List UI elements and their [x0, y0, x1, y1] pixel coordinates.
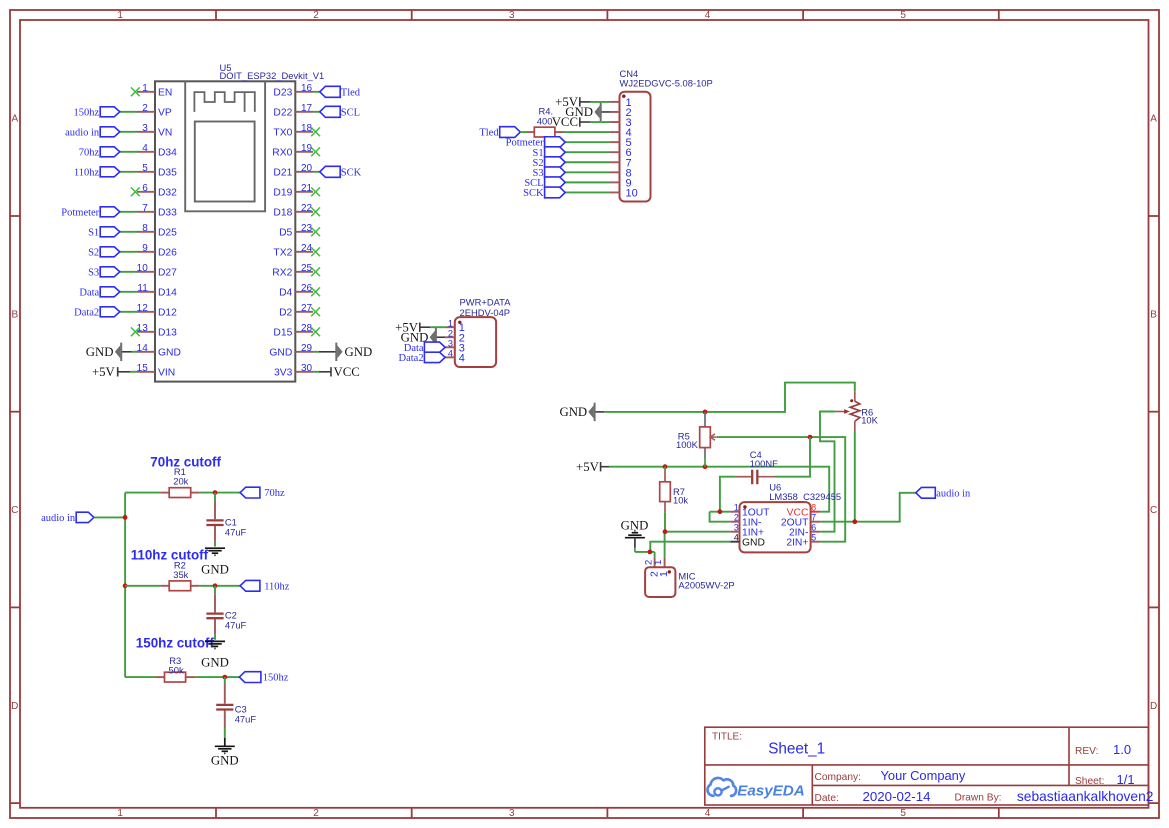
- wire: [565, 171, 610, 173]
- svg-text:1/1: 1/1: [1117, 772, 1135, 787]
- svg-text:D4: D4: [279, 288, 292, 299]
- svg-text:27: 27: [301, 303, 313, 314]
- power flag +5V (PWR+DATA pin 1): [395, 320, 430, 334]
- svg-text:B: B: [11, 309, 18, 320]
- net flag 110hz: [240, 580, 290, 592]
- svg-text:SCK: SCK: [523, 188, 544, 199]
- U5 pin 30 (3V3): [274, 363, 313, 379]
- U5 pin 8 (D25): [137, 223, 177, 239]
- svg-text:Your Company: Your Company: [881, 768, 966, 783]
- resistor R1 20k: [169, 466, 191, 497]
- svg-text:VP: VP: [158, 108, 172, 119]
- power flag VCC (U5 pin 30): [319, 365, 360, 379]
- svg-text:110hz: 110hz: [74, 167, 100, 178]
- U5 pin 11 (D14): [137, 283, 177, 299]
- PWR+DATA pin 4: [445, 348, 465, 364]
- svg-text:1: 1: [658, 571, 670, 577]
- resistor R1 leads: [160, 492, 169, 494]
- svg-text:Tled: Tled: [341, 87, 361, 98]
- svg-text:D19: D19: [273, 188, 292, 199]
- svg-text:+5V: +5V: [576, 460, 600, 474]
- svg-text:2EHDV-04P: 2EHDV-04P: [460, 307, 511, 318]
- svg-text:GND: GND: [86, 345, 114, 359]
- svg-text:D23: D23: [273, 88, 292, 99]
- capacitor C3 leads: [224, 677, 226, 683]
- wire: [125, 492, 160, 494]
- svg-text:150hz cutoff: 150hz cutoff: [136, 635, 215, 650]
- net flag audio in (output): [916, 487, 971, 499]
- U6 pin 6 (2IN-): [789, 523, 820, 539]
- op-amp U6 LM358_C329455 body: [740, 502, 811, 552]
- wire audio-in rail: [94, 516, 125, 518]
- ground flag GND (PWR+DATA pin 2): [401, 328, 445, 346]
- svg-text:TX0: TX0: [273, 128, 292, 139]
- U6 pin 7 (2OUT): [781, 513, 820, 529]
- net flag S1: [533, 147, 566, 159]
- net flag Data2: [74, 307, 120, 319]
- svg-text:sebastiaankalkhoven2: sebastiaankalkhoven2: [1017, 789, 1154, 804]
- capacitor C2 47uF: [206, 610, 246, 631]
- net flag 70hz: [79, 147, 120, 159]
- wire: [120, 111, 137, 113]
- wire 1OUT to 1IN- feedback: [710, 511, 731, 513]
- title block: [705, 727, 1154, 805]
- potentiometer R5 100K: [676, 412, 717, 467]
- junction: [123, 583, 128, 588]
- svg-text:25: 25: [301, 263, 313, 274]
- U6 pin 2 (1IN-): [730, 513, 761, 529]
- CN4 pin 8: [610, 167, 632, 179]
- wire: [132, 351, 138, 353]
- wire: [564, 131, 610, 133]
- svg-text:1: 1: [448, 318, 453, 328]
- svg-text:D21: D21: [273, 168, 292, 179]
- wire +5V rail: [609, 467, 829, 512]
- svg-text:24: 24: [301, 243, 313, 254]
- svg-text:3: 3: [448, 338, 453, 348]
- ground: [211, 738, 239, 767]
- svg-text:C: C: [11, 505, 18, 516]
- svg-text:10K: 10K: [861, 414, 878, 425]
- net flag 150hz: [239, 672, 288, 684]
- net flag S3: [88, 267, 120, 279]
- svg-text:D14: D14: [158, 288, 177, 299]
- svg-text:20: 20: [301, 163, 313, 174]
- wire R6 bottom to output: [854, 432, 856, 522]
- power flag +5V (U5 pin 15): [92, 365, 130, 379]
- svg-text:4: 4: [142, 143, 148, 154]
- U5 inner screen rectangle: [195, 122, 255, 202]
- U6 pin 3 (1IN+): [730, 523, 764, 539]
- svg-text:17: 17: [301, 103, 313, 114]
- svg-text:7: 7: [811, 513, 816, 523]
- svg-text:D12: D12: [158, 308, 177, 319]
- ground flag GND (U5 pin 14): [86, 343, 132, 361]
- no-connect X on U5 pin 25: [311, 267, 320, 276]
- svg-text:70hz: 70hz: [79, 147, 100, 158]
- svg-text:GND: GND: [201, 562, 229, 576]
- CN4 pin 3: [610, 117, 632, 129]
- CN4 pin 7: [610, 157, 632, 169]
- capacitor C1 leads: [214, 493, 216, 501]
- svg-text:3: 3: [734, 523, 739, 533]
- net flag Data (PWR+DATA pin 3): [404, 342, 445, 354]
- svg-text:GND: GND: [742, 537, 765, 548]
- op-amp U5 body DOIT_ESP32_Devkit_V1: [155, 81, 295, 381]
- svg-text:1: 1: [734, 503, 739, 513]
- connector PWR+DATA 2EHDV-04P body: [455, 317, 496, 367]
- wire: [313, 351, 319, 353]
- net flag 70hz: [240, 487, 285, 499]
- U5 pin 18 (TX0): [273, 123, 313, 139]
- U5 pin 7 (D33): [137, 203, 177, 219]
- no-connect X on U5 pin 19: [311, 147, 320, 156]
- U5 pin 5 (D35): [137, 163, 177, 179]
- CN4 pin 5: [610, 137, 632, 149]
- svg-text:D15: D15: [273, 328, 292, 339]
- +5V power flag (op-amp): [576, 460, 609, 474]
- junction: [663, 529, 668, 534]
- U5 module outline: [185, 81, 265, 211]
- ground flag GND (U5 pin 29): [319, 343, 372, 361]
- svg-text:16: 16: [301, 83, 313, 94]
- svg-text:EN: EN: [158, 88, 172, 99]
- no-connect X on U5 pin 28: [311, 327, 320, 336]
- svg-text:26: 26: [301, 283, 313, 294]
- svg-text:D26: D26: [158, 248, 177, 259]
- wire GND to U6 pin4 and MIC: [635, 551, 655, 553]
- capacitor C2 leads: [214, 586, 216, 594]
- svg-text:9: 9: [142, 243, 148, 254]
- svg-text:29: 29: [301, 343, 313, 354]
- U5 pin 24 (TX2): [273, 243, 313, 259]
- no-connect X on U5 pin 27: [311, 307, 320, 316]
- svg-text:2020-02-14: 2020-02-14: [863, 789, 931, 804]
- U5 pin 29 (GND): [269, 343, 313, 359]
- svg-text:70hz: 70hz: [264, 488, 285, 499]
- junction: [663, 464, 668, 469]
- svg-text:7: 7: [142, 203, 148, 214]
- net flag S2: [88, 247, 120, 259]
- U5 antenna meander: [194, 92, 254, 112]
- resistor R2 35k: [169, 559, 191, 590]
- svg-text:DOIT_ESP32_Devkit_V1: DOIT_ESP32_Devkit_V1: [220, 70, 325, 81]
- svg-text:+5V: +5V: [92, 365, 116, 379]
- svg-text:5: 5: [811, 533, 816, 543]
- svg-text:S1: S1: [88, 227, 99, 238]
- svg-text:A2005WV-2P: A2005WV-2P: [678, 580, 734, 591]
- svg-text:B: B: [1150, 309, 1157, 320]
- svg-text:Date:: Date:: [815, 793, 839, 804]
- svg-text:SCL: SCL: [341, 107, 360, 118]
- svg-text:12: 12: [137, 303, 149, 314]
- svg-text:D34: D34: [158, 148, 177, 159]
- svg-text:14: 14: [137, 343, 149, 354]
- svg-text:110hz cutoff: 110hz cutoff: [131, 547, 209, 562]
- net flag audio in (input): [41, 512, 94, 524]
- svg-text:2: 2: [734, 513, 739, 523]
- resistor R7 10k: [660, 467, 689, 513]
- wire: [565, 181, 610, 183]
- U5 pin 19 (RX0): [272, 143, 313, 159]
- svg-text:WJ2EDGVC-5.08-10P: WJ2EDGVC-5.08-10P: [620, 77, 713, 88]
- U5 pin 9 (D26): [137, 243, 177, 259]
- svg-text:3: 3: [509, 10, 515, 21]
- svg-text:5: 5: [900, 10, 906, 21]
- svg-text:LM358_C329455: LM358_C329455: [769, 491, 841, 502]
- wire: [313, 111, 320, 113]
- U5 pin 14 (GND): [137, 343, 181, 359]
- svg-text:47uF: 47uF: [225, 526, 247, 537]
- no-connect X on U5 pin 22: [311, 207, 320, 216]
- U6 pin 8 (VCC): [787, 503, 821, 519]
- svg-text:audio in: audio in: [41, 513, 76, 524]
- wire: [565, 151, 610, 153]
- svg-text:EasyEDA: EasyEDA: [737, 783, 805, 800]
- svg-text:100NF: 100NF: [750, 458, 778, 469]
- svg-text:35k: 35k: [173, 569, 188, 580]
- wire R6 wiper to 2IN-: [820, 412, 835, 532]
- svg-text:VIN: VIN: [158, 368, 175, 379]
- svg-text:D35: D35: [158, 168, 177, 179]
- svg-text:2: 2: [142, 103, 148, 114]
- CN4 pin 6: [610, 147, 632, 159]
- resistor R4: [534, 105, 555, 137]
- U5 pin 6 (D32): [137, 183, 177, 199]
- capacitor C3 47uF: [216, 703, 256, 724]
- wire: [120, 291, 137, 293]
- net flag Tled: [479, 127, 520, 139]
- resistor R3 leads: [156, 676, 165, 678]
- CN4 pin 4: [610, 127, 632, 139]
- resistor R4 leads: [527, 131, 534, 133]
- svg-text:RX2: RX2: [272, 268, 292, 279]
- svg-text:Sheet:: Sheet:: [1075, 776, 1104, 787]
- junction node 150hz: [222, 675, 227, 680]
- wire: [565, 191, 610, 193]
- ground: [201, 548, 229, 576]
- wire: [120, 271, 137, 273]
- svg-text:2: 2: [448, 328, 453, 338]
- svg-text:TITLE:: TITLE:: [712, 731, 742, 742]
- svg-text:3: 3: [142, 123, 148, 134]
- svg-text:C: C: [1150, 505, 1157, 516]
- svg-text:VCC: VCC: [334, 365, 360, 379]
- junction: [123, 515, 128, 520]
- svg-text:400: 400: [537, 115, 553, 126]
- U5 pin 27 (D2): [279, 303, 313, 319]
- svg-text:RX0: RX0: [272, 148, 292, 159]
- svg-text:15: 15: [137, 363, 149, 374]
- U5 pin 1 (EN): [137, 83, 172, 99]
- wire: [120, 151, 137, 153]
- svg-text:47uF: 47uF: [225, 620, 247, 631]
- svg-text:S2: S2: [88, 247, 99, 258]
- U5 pin 4 (D34): [137, 143, 177, 159]
- svg-text:11: 11: [137, 283, 148, 294]
- no-connect X on U5 pin 1: [131, 87, 140, 96]
- U5 pin 25 (RX2): [272, 263, 313, 279]
- svg-text:50k: 50k: [169, 664, 184, 675]
- net flag Tled: [320, 86, 361, 98]
- net flag 110hz: [74, 167, 120, 179]
- microphone MIC A2005WV-2P: [643, 558, 734, 597]
- svg-text:Drawn By:: Drawn By:: [955, 792, 1002, 803]
- ground flag GND (op-amp bias): [559, 403, 604, 421]
- wire: [565, 141, 610, 143]
- wire: [125, 676, 155, 678]
- svg-text:4: 4: [705, 808, 711, 819]
- svg-text:D13: D13: [158, 328, 177, 339]
- wire R5 wiper to 2IN+: [717, 437, 845, 542]
- svg-text:8: 8: [142, 223, 148, 234]
- U5 pin 10 (D27): [137, 263, 177, 279]
- CN4 pin 2: [610, 107, 632, 119]
- power flag VCC (CN4 pin 3): [552, 115, 590, 129]
- junction: [703, 464, 708, 469]
- net flag S3: [533, 167, 566, 179]
- svg-text:1.0: 1.0: [1113, 742, 1131, 757]
- svg-text:150hz: 150hz: [74, 107, 100, 118]
- ground flag GND (CN4 pin 2): [565, 103, 610, 121]
- no-connect X on U5 pin 24: [311, 247, 320, 256]
- svg-text:PWR+DATA: PWR+DATA: [460, 297, 512, 308]
- U5 pin 13 (D13): [137, 323, 177, 339]
- wire C4 left to 1OUT: [720, 477, 736, 512]
- svg-text:D2: D2: [279, 308, 292, 319]
- U6 pin 4 (GND): [730, 533, 765, 549]
- svg-text:audio in: audio in: [936, 488, 971, 499]
- U5 pin 12 (D12): [137, 303, 177, 319]
- no-connect X on U5 pin 18: [311, 127, 320, 136]
- svg-text:21: 21: [301, 183, 313, 194]
- svg-text:10: 10: [137, 263, 149, 274]
- wire: [195, 676, 239, 678]
- wire C4 right to 2IN+ net: [775, 437, 810, 477]
- svg-text:D22: D22: [273, 108, 292, 119]
- svg-text:3: 3: [509, 808, 515, 819]
- capacitor C4 100NF: [736, 449, 778, 484]
- CN4 pin 10: [610, 187, 638, 199]
- wire: [313, 171, 320, 173]
- svg-text:audio in: audio in: [65, 127, 100, 138]
- U5 pin 20 (D21): [273, 163, 313, 179]
- net flag SCK: [320, 166, 362, 178]
- svg-text:GND: GND: [158, 348, 181, 359]
- svg-text:4: 4: [448, 348, 453, 358]
- svg-text:1: 1: [117, 10, 123, 21]
- power flag +5V (CN4 pin 1): [555, 95, 590, 109]
- net flag audio in: [65, 127, 120, 139]
- svg-text:GND: GND: [269, 348, 292, 359]
- svg-text:10: 10: [626, 187, 638, 199]
- svg-text:D18: D18: [273, 208, 292, 219]
- net flag SCK: [523, 187, 565, 199]
- wire: [120, 171, 137, 173]
- svg-text:GND: GND: [345, 345, 373, 359]
- svg-text:47uF: 47uF: [235, 713, 257, 724]
- CN4 pin 9: [610, 177, 632, 189]
- svg-text:Data2: Data2: [399, 353, 424, 364]
- wire: [125, 585, 160, 587]
- EasyEDA logo: [707, 778, 804, 800]
- no-connect X on U5 pin 13: [131, 327, 140, 336]
- connector CN4 WJ2EDGVC-5.08-10P body: [620, 92, 651, 202]
- svg-text:Sheet_1: Sheet_1: [768, 741, 825, 758]
- svg-text:5: 5: [900, 808, 906, 819]
- U5 pin 22 (D18): [273, 203, 313, 219]
- wire: [120, 251, 137, 253]
- svg-text:Company:: Company:: [815, 772, 861, 783]
- U5 pin 3 (VN): [137, 123, 172, 139]
- wire: [430, 326, 445, 328]
- U5 pin 17 (D22): [273, 103, 313, 119]
- svg-text:1: 1: [142, 83, 148, 94]
- junction: [703, 410, 708, 415]
- wire GND net: [604, 383, 855, 412]
- U5 pin 28 (D15): [273, 323, 313, 339]
- svg-text:18: 18: [301, 123, 313, 134]
- svg-text:23: 23: [301, 223, 313, 234]
- wire: [120, 231, 137, 233]
- svg-text:20k: 20k: [173, 476, 188, 487]
- svg-text:D32: D32: [158, 188, 177, 199]
- svg-text:100K: 100K: [676, 439, 699, 450]
- net flag Data2 (PWR+DATA pin 4): [399, 352, 446, 364]
- wire: [313, 91, 320, 93]
- svg-text:2: 2: [313, 808, 319, 819]
- wire: [200, 585, 240, 587]
- wire: [590, 101, 610, 103]
- svg-text:4: 4: [734, 533, 739, 543]
- wire: [520, 131, 527, 133]
- svg-text:30: 30: [301, 363, 313, 374]
- ground (earth) op-amp: [621, 518, 649, 552]
- U5 pin 15 (VIN): [137, 363, 175, 379]
- net flag S1: [88, 227, 120, 239]
- svg-text:D27: D27: [158, 268, 177, 279]
- net flag Data: [79, 287, 119, 299]
- wire: [120, 311, 137, 313]
- svg-text:5: 5: [142, 163, 148, 174]
- net flag Potmeter: [506, 137, 566, 149]
- net flag S2: [533, 157, 566, 169]
- svg-text:8: 8: [811, 503, 816, 513]
- U5 pin 16 (D23): [273, 83, 313, 99]
- svg-text:D: D: [1150, 701, 1157, 712]
- svg-text:Data2: Data2: [74, 307, 99, 318]
- svg-text:4: 4: [459, 352, 465, 364]
- svg-text:150hz: 150hz: [263, 673, 289, 684]
- wire R7 to 1IN+ and MIC: [664, 512, 666, 532]
- no-connect X on U5 pin 23: [311, 227, 320, 236]
- wire: [313, 371, 319, 373]
- svg-text:D33: D33: [158, 208, 177, 219]
- junction: [718, 509, 723, 514]
- junction: [808, 435, 813, 440]
- svg-text:D5: D5: [279, 228, 292, 239]
- svg-text:GND: GND: [201, 656, 229, 670]
- wire: [200, 492, 240, 494]
- capacitor C1 47uF: [206, 516, 246, 537]
- svg-text:A: A: [11, 114, 18, 125]
- wire: [120, 211, 137, 213]
- svg-text:GND: GND: [211, 753, 239, 767]
- svg-text:110hz: 110hz: [264, 581, 290, 592]
- svg-text:1: 1: [117, 808, 123, 819]
- junction: [648, 550, 653, 555]
- PWR+DATA pin 3: [445, 338, 465, 354]
